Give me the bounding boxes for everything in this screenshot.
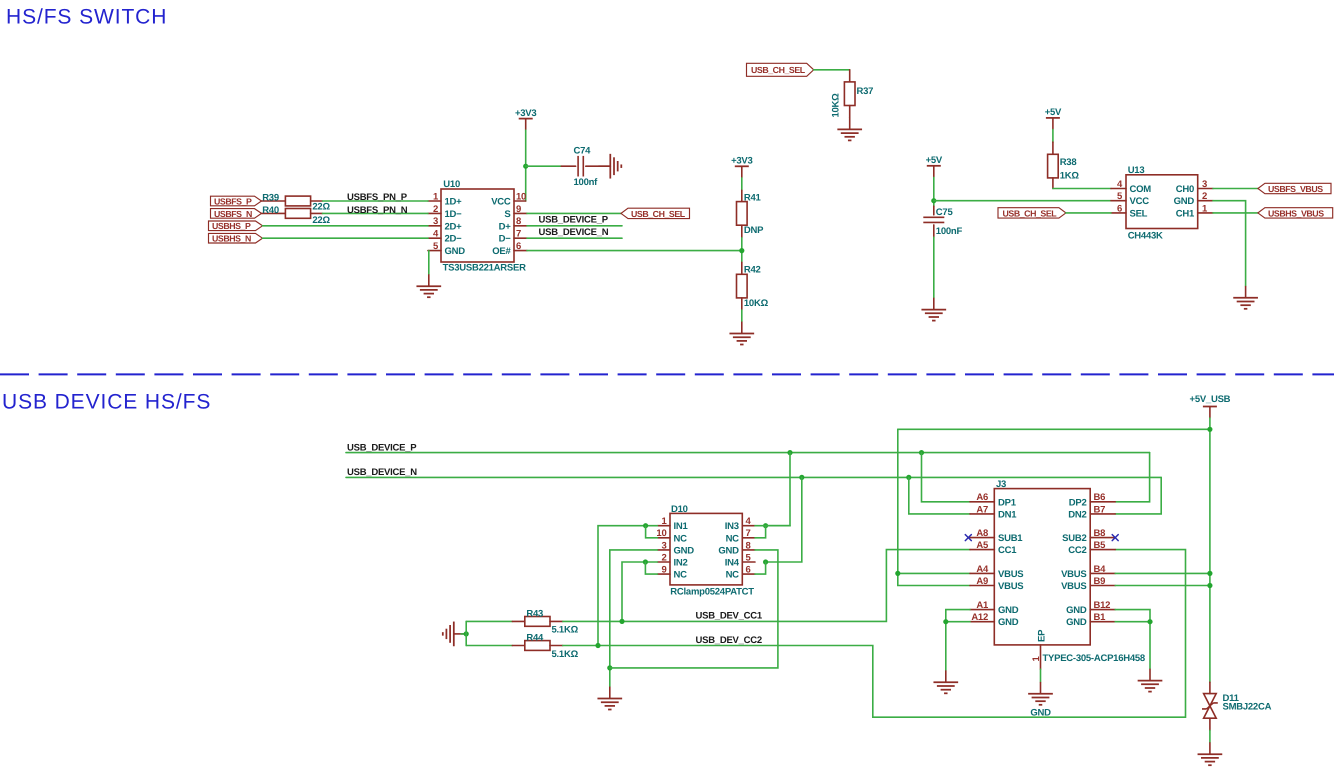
- power +5V (R38 top): [1045, 107, 1062, 130]
- svg-text:VBUS: VBUS: [998, 581, 1023, 592]
- wire pin2 GND to ground: [1213, 201, 1246, 286]
- svg-text:IN3: IN3: [725, 521, 739, 532]
- svg-text:R41: R41: [744, 192, 762, 203]
- svg-text:USB_CH_SEL: USB_CH_SEL: [631, 209, 686, 219]
- svg-text:USB_DEVICE_N: USB_DEVICE_N: [539, 227, 609, 238]
- J3 pin B7 DN2: [1068, 504, 1115, 520]
- global label USBFS_P: [211, 196, 262, 206]
- J3 pin EP: [1031, 629, 1048, 669]
- svg-text:R40: R40: [262, 205, 279, 216]
- wire USBHS_N to pin4: [263, 237, 429, 239]
- node +5V_USB column top: [1207, 427, 1212, 432]
- svg-text:CH443K: CH443K: [1128, 231, 1163, 242]
- ground below U10: [416, 274, 441, 297]
- U10 pin 8 D+: [499, 216, 527, 232]
- D10 pin 4 IN3: [725, 516, 755, 532]
- wire +5V to junction: [933, 177, 935, 206]
- svg-text:U10: U10: [443, 179, 460, 190]
- wire R40 to pin2 USBFS_PN_N: [323, 212, 429, 214]
- global label USBFS_VBUS: [1258, 183, 1331, 194]
- J3 pin A9 VBUS: [970, 576, 1023, 592]
- resistor R39 22R: [262, 192, 331, 212]
- wire IN1 to CC2 drop: [598, 526, 657, 646]
- svg-text:A4: A4: [976, 564, 989, 575]
- J3 pin B8 SUB2: [1062, 528, 1115, 544]
- svg-text:S: S: [504, 209, 510, 220]
- svg-text:USBFS_PN_P: USBFS_PN_P: [347, 192, 408, 203]
- svg-text:B5: B5: [1094, 540, 1107, 551]
- svg-text:SMBJ22CA: SMBJ22CA: [1223, 702, 1272, 713]
- wire junction to C74: [526, 165, 562, 167]
- wire +5V_USB horizontal to VBUS drop: [898, 428, 1210, 430]
- ground left of R43/R44: [443, 622, 466, 647]
- wire USB_DEV_CC1: [563, 550, 970, 622]
- wire down to J3 DP2: [1115, 453, 1149, 502]
- svg-text:+5V_USB: +5V_USB: [1190, 394, 1231, 405]
- svg-text:A8: A8: [976, 528, 988, 539]
- svg-text:DP1: DP1: [998, 497, 1017, 508]
- svg-text:DN1: DN1: [998, 509, 1017, 520]
- power +5V (C75 rail): [926, 155, 943, 178]
- wire riser to R43: [466, 620, 512, 622]
- node IN3 drop junction: [787, 450, 792, 455]
- wire pin9 S to USB_CH_SEL label: [527, 212, 621, 214]
- svg-text:B9: B9: [1094, 576, 1106, 587]
- svg-text:DP2: DP2: [1069, 497, 1087, 508]
- svg-text:GND: GND: [1174, 196, 1195, 207]
- svg-text:22Ω: 22Ω: [312, 215, 330, 226]
- U13 pin 4 COM: [1111, 179, 1151, 195]
- ground below A12: [933, 670, 958, 693]
- diode D11 SMBJ22CA TVS: [1202, 682, 1272, 730]
- wire EP to ground: [1040, 669, 1042, 682]
- wire USB_CH_SEL to R37: [814, 69, 850, 71]
- svg-text:VBUS: VBUS: [1061, 569, 1086, 580]
- wire riser R43/R44: [465, 621, 467, 645]
- svg-text:TYPEC-305-ACP16H458: TYPEC-305-ACP16H458: [1043, 653, 1145, 664]
- U10 pin 3 2D+: [428, 216, 462, 232]
- ground below EP: [1028, 682, 1053, 705]
- wire R38 to U13 COM: [1053, 188, 1111, 190]
- wire IN3 to P drop: [755, 525, 790, 527]
- node IN4/NC6 junction: [763, 559, 768, 564]
- wire NC6 hook: [755, 562, 766, 574]
- svg-text:USB_CH_SEL: USB_CH_SEL: [1003, 208, 1058, 218]
- global label USB_CH_SEL (at U10 pin9): [621, 208, 690, 219]
- wire GND3 to ground rail: [610, 550, 658, 687]
- node B4 on rail: [1207, 571, 1212, 576]
- wire pin7 D- USB_DEVICE_N: [527, 237, 622, 239]
- global label USBHS_VBUS: [1258, 208, 1333, 219]
- wire VBUS drop to A4/A9: [898, 429, 970, 585]
- node IN3/NC7 junction: [763, 523, 768, 528]
- svg-text:CC1: CC1: [998, 545, 1017, 556]
- J3 pin A4 VBUS: [970, 564, 1023, 580]
- svg-text:2: 2: [433, 204, 438, 215]
- wire A1/A12 to ground: [946, 610, 970, 671]
- section separator dashed line: [0, 373, 1334, 375]
- svg-text:R43: R43: [526, 609, 543, 620]
- wire USB_DEVICE_N bus: [346, 476, 1161, 478]
- svg-text:3: 3: [1202, 179, 1207, 190]
- J3 pin A5 CC1: [970, 540, 1017, 556]
- svg-text:NC: NC: [726, 533, 740, 544]
- wire pin3 CH0 to USBFS_VBUS: [1213, 188, 1258, 190]
- U10 pin 2 1D-: [428, 204, 462, 220]
- U13 pin 3 CH0: [1176, 179, 1213, 195]
- svg-text:USBFS_VBUS: USBFS_VBUS: [1268, 184, 1323, 194]
- U10 pin 9 S: [504, 204, 527, 220]
- wire drop to J3 DN1: [909, 477, 970, 514]
- node R43/R44 ground junction: [464, 631, 469, 636]
- J3 pin B4 VBUS: [1061, 564, 1115, 580]
- node IN4 drop junction: [799, 475, 804, 480]
- svg-text:USB_CH_SEL: USB_CH_SEL: [751, 65, 806, 75]
- svg-text:USBFS_P: USBFS_P: [214, 196, 252, 206]
- svg-text:USBHS_VBUS: USBHS_VBUS: [1268, 208, 1324, 218]
- wire U10 GND pin to ground: [428, 251, 430, 275]
- svg-text:R38: R38: [1060, 157, 1077, 168]
- svg-text:NC: NC: [726, 570, 740, 581]
- U10 pin 7 D-: [499, 229, 527, 245]
- wire +3V3 to VCC junction: [525, 130, 527, 201]
- svg-text:EP: EP: [1036, 629, 1047, 642]
- IC D10 RClamp0524PATCT: [670, 504, 754, 598]
- capacitor C75: [923, 206, 962, 237]
- node IN2 drop on CC1: [619, 619, 624, 624]
- svg-text:USBHS_P: USBHS_P: [212, 221, 251, 231]
- svg-text:R39: R39: [262, 192, 279, 203]
- svg-text:IN2: IN2: [674, 558, 688, 569]
- J3 pin B6 DP2: [1069, 492, 1115, 508]
- svg-text:SEL: SEL: [1130, 208, 1148, 219]
- svg-text:1D−: 1D−: [445, 209, 463, 220]
- svg-text:GND: GND: [1066, 605, 1087, 616]
- svg-text:COM: COM: [1130, 184, 1152, 195]
- svg-text:USB_DEV_CC2: USB_DEV_CC2: [696, 635, 762, 646]
- wire pin8 D+ USB_DEVICE_P: [527, 225, 622, 227]
- svg-text:C75: C75: [936, 207, 954, 218]
- wire A4 VBUS branch: [898, 572, 970, 574]
- D10 pin 2 IN2: [657, 552, 687, 568]
- D10 pin 7 NC: [726, 528, 755, 544]
- U13 pin 1 CH1: [1176, 203, 1213, 219]
- svg-text:SUB1: SUB1: [998, 533, 1023, 544]
- svg-text:7: 7: [516, 229, 521, 240]
- wire R39 to pin1 USBFS_PN_P: [323, 200, 429, 202]
- svg-text:J3: J3: [996, 479, 1006, 490]
- node IN1 drop on CC2: [595, 643, 600, 648]
- wire NC9 hook: [645, 562, 657, 574]
- svg-text:CC2: CC2: [1068, 545, 1086, 556]
- svg-text:VCC: VCC: [491, 197, 511, 208]
- svg-text:A1: A1: [976, 600, 989, 611]
- svg-text:5.1KΩ: 5.1KΩ: [552, 625, 579, 636]
- svg-text:+3V3: +3V3: [731, 155, 752, 166]
- global label USBFS_N: [211, 209, 262, 219]
- ground below R37: [837, 117, 862, 140]
- wire ground to R43/R44 riser: [461, 633, 466, 635]
- svg-text:R42: R42: [744, 265, 761, 276]
- wire SEL label to pin6: [1066, 212, 1111, 214]
- J3 pin B12 GND: [1066, 600, 1115, 616]
- U10 pin 10 VCC: [491, 191, 526, 207]
- wire B9 VBUS to +5V_USB rail: [1115, 585, 1210, 587]
- wire B12/B1 to ground: [1115, 610, 1150, 669]
- wire down to J3 DN2: [1115, 477, 1161, 514]
- svg-text:B6: B6: [1094, 492, 1106, 503]
- capacitor C74: [561, 145, 610, 188]
- power +5V_USB: [1190, 394, 1231, 418]
- ground below R42: [729, 322, 754, 345]
- svg-text:SUB2: SUB2: [1062, 533, 1086, 544]
- svg-text:B12: B12: [1094, 600, 1111, 611]
- wire NC7 hook: [755, 526, 766, 538]
- ground below U13 GND: [1233, 286, 1258, 309]
- D10 pin 5 IN4: [725, 552, 755, 568]
- svg-text:B8: B8: [1094, 528, 1106, 539]
- power +3V3 (U10 VCC rail): [515, 108, 536, 130]
- ground below C75: [921, 298, 946, 321]
- svg-text:6: 6: [516, 241, 521, 252]
- node A4 VBUS junction: [895, 571, 900, 576]
- svg-text:22Ω: 22Ω: [312, 202, 330, 213]
- svg-text:2: 2: [661, 552, 666, 563]
- wire +5V to R38: [1052, 130, 1054, 143]
- svg-text:+5V: +5V: [926, 155, 943, 166]
- U10 pin 4 2D-: [428, 229, 462, 245]
- J3 pin A1 GND: [970, 600, 1019, 616]
- svg-text:USB_DEVICE_P: USB_DEVICE_P: [347, 442, 417, 453]
- node DP1 drop junction: [919, 450, 924, 455]
- node VCC junction: [523, 164, 528, 169]
- svg-text:+5V: +5V: [1045, 107, 1062, 118]
- svg-text:7: 7: [746, 528, 751, 539]
- svg-text:D10: D10: [671, 504, 688, 515]
- svg-text:9: 9: [661, 565, 666, 576]
- svg-text:2D+: 2D+: [445, 221, 463, 232]
- svg-text:HS/FS SWITCH: HS/FS SWITCH: [6, 6, 167, 29]
- svg-text:USB DEVICE HS/FS: USB DEVICE HS/FS: [2, 391, 211, 414]
- svg-text:USBFS_PN_N: USBFS_PN_N: [347, 205, 408, 216]
- resistor R41 DNP: [737, 190, 765, 238]
- U10 pin 1 1D+: [428, 191, 462, 207]
- svg-text:USB_DEV_CC1: USB_DEV_CC1: [696, 611, 763, 622]
- svg-text:R44: R44: [526, 633, 544, 644]
- svg-text:USB_DEVICE_N: USB_DEVICE_N: [347, 467, 417, 478]
- svg-text:B4: B4: [1094, 564, 1107, 575]
- D10 pin 8 GND: [718, 540, 755, 556]
- wire drop to D10 IN4: [766, 477, 802, 562]
- wire USBHS_P to pin3: [263, 225, 429, 227]
- wire drop to J3 DP1: [922, 453, 971, 502]
- node OE#/R41/R42 junction: [739, 248, 744, 253]
- J3 pin B9 VBUS: [1061, 576, 1115, 592]
- svg-text:B7: B7: [1094, 504, 1106, 515]
- svg-text:DN2: DN2: [1068, 509, 1086, 520]
- J3 pin B1 GND: [1066, 612, 1115, 628]
- svg-text:VBUS: VBUS: [1061, 581, 1086, 592]
- wire riser to R44: [466, 645, 512, 647]
- svg-text:D+: D+: [499, 221, 512, 232]
- U10 pin 5 GND: [428, 241, 465, 257]
- svg-text:2D−: 2D−: [445, 234, 463, 245]
- svg-text:10: 10: [516, 191, 526, 202]
- svg-text:6: 6: [746, 565, 751, 576]
- wire B1 branch: [1115, 621, 1150, 623]
- svg-text:GND: GND: [998, 605, 1019, 616]
- svg-text:IN4: IN4: [725, 558, 740, 569]
- resistor R44 5.1K: [512, 633, 578, 660]
- wire junction to U13 VCC: [934, 200, 1111, 202]
- global label USBHS_N: [209, 233, 263, 243]
- svg-text:GND: GND: [1066, 617, 1087, 628]
- power +3V3 (R41 top): [731, 155, 752, 178]
- wire pin1 CH1 to USBHS_VBUS: [1213, 212, 1258, 214]
- svg-text:5.1KΩ: 5.1KΩ: [552, 649, 579, 660]
- U13 pin 6 SEL: [1111, 203, 1148, 219]
- wire USB_DEV_CC2: [563, 550, 1186, 718]
- J3 pin A8 SUB1: [970, 528, 1023, 544]
- wire IN2 to CC1 drop: [622, 562, 657, 621]
- node A12 junction: [943, 619, 948, 624]
- wire drop to D10 IN3: [766, 453, 790, 526]
- wire A12 branch: [946, 621, 970, 623]
- svg-text:8: 8: [516, 216, 521, 227]
- wire GND8 to ground rail: [610, 550, 778, 668]
- resistor R42 10K: [737, 262, 769, 310]
- ground below D11: [1198, 742, 1223, 765]
- svg-text:GND: GND: [998, 617, 1019, 628]
- svg-text:DNP: DNP: [744, 225, 764, 236]
- svg-text:A9: A9: [976, 576, 988, 587]
- svg-text:10KΩ: 10KΩ: [831, 93, 842, 118]
- connector J3 TYPEC-305-ACP16H458: [994, 479, 1145, 664]
- U13 pin 5 VCC: [1111, 191, 1149, 207]
- resistor R43 5.1K: [512, 609, 578, 636]
- wire C75 to ground: [933, 237, 935, 298]
- svg-text:D−: D−: [499, 234, 512, 245]
- D10 pin 10 NC: [656, 528, 687, 544]
- IC U10 TS3USB221ARSER: [441, 179, 526, 274]
- node IN2/NC9 junction: [643, 559, 648, 564]
- svg-text:1KΩ: 1KΩ: [1060, 171, 1080, 182]
- svg-text:A6: A6: [976, 492, 988, 503]
- svg-text:IN1: IN1: [674, 521, 689, 532]
- U10 pin 6 OE#: [492, 241, 527, 257]
- svg-text:C74: C74: [574, 145, 592, 156]
- svg-text:R37: R37: [857, 86, 874, 97]
- svg-text:GND: GND: [1030, 708, 1051, 719]
- wire +3V3 to R41: [741, 178, 743, 190]
- ground below B1: [1138, 669, 1163, 692]
- wire D11 to ground: [1209, 730, 1211, 742]
- wire NC10 hook: [646, 526, 658, 538]
- node B1 junction: [1147, 619, 1152, 624]
- svg-text:GND: GND: [718, 545, 739, 556]
- node C75/VCC junction: [931, 198, 936, 203]
- svg-text:NC: NC: [674, 533, 688, 544]
- J3 pin B5 CC2: [1068, 540, 1115, 556]
- global label USB_CH_SEL (to U13 SEL): [998, 208, 1066, 219]
- svg-text:RClamp0524PATCT: RClamp0524PATCT: [670, 586, 754, 597]
- svg-text:CH0: CH0: [1176, 184, 1194, 195]
- D10 pin 6 NC: [726, 565, 755, 581]
- svg-text:USBFS_N: USBFS_N: [214, 209, 252, 219]
- IC U13 CH443K: [1126, 165, 1198, 241]
- svg-text:TS3USB221ARSER: TS3USB221ARSER: [443, 263, 526, 274]
- svg-text:GND: GND: [674, 545, 695, 556]
- svg-text:100nF: 100nF: [936, 226, 963, 237]
- J3 pin A7 DN1: [970, 504, 1017, 520]
- svg-text:OE#: OE#: [492, 246, 511, 257]
- svg-text:VBUS: VBUS: [998, 569, 1023, 580]
- U13 pin 2 GND: [1174, 191, 1213, 207]
- global label USB_CH_SEL (top, to R37): [747, 63, 814, 76]
- no-connect flag B8: [1112, 535, 1118, 541]
- node B9 on rail: [1207, 583, 1212, 588]
- svg-text:GND: GND: [445, 246, 466, 257]
- svg-text:1D+: 1D+: [445, 197, 463, 208]
- node D10 ground junction: [607, 665, 612, 670]
- ground right of C74: [598, 154, 621, 179]
- D10 pin 1 IN1: [657, 516, 688, 532]
- svg-text:NC: NC: [674, 570, 688, 581]
- svg-text:A7: A7: [976, 504, 988, 515]
- svg-text:VCC: VCC: [1130, 196, 1150, 207]
- resistor R40 22R: [262, 205, 331, 226]
- wire B4 VBUS to +5V_USB rail: [1115, 572, 1210, 574]
- wire pin6 OE# to R41/R42 junction: [527, 250, 742, 252]
- wire USB_DEVICE_P bus: [346, 452, 1150, 454]
- wire +5V_USB rail down to D11: [1209, 418, 1211, 682]
- svg-text:8: 8: [746, 540, 751, 551]
- D10 pin 3 GND: [657, 540, 694, 556]
- node DN1 drop junction: [906, 475, 911, 480]
- resistor R37: [831, 70, 874, 118]
- svg-text:3: 3: [661, 540, 666, 551]
- svg-text:B1: B1: [1094, 612, 1107, 623]
- D10 pin 9 NC: [657, 565, 687, 581]
- svg-text:6: 6: [1117, 203, 1122, 214]
- svg-text:10KΩ: 10KΩ: [744, 298, 769, 309]
- svg-text:+3V3: +3V3: [515, 108, 536, 119]
- J3 pin A6 DP1: [970, 492, 1017, 508]
- no-connect flag A8: [965, 535, 971, 541]
- svg-text:9: 9: [516, 204, 521, 215]
- ground below D10: [597, 687, 622, 710]
- svg-text:A5: A5: [976, 540, 989, 551]
- global label USBHS_P: [209, 221, 263, 231]
- svg-text:USBHS_N: USBHS_N: [212, 234, 251, 244]
- svg-text:CH1: CH1: [1176, 208, 1195, 219]
- svg-text:100nf: 100nf: [574, 177, 599, 188]
- node IN1/NC10 junction: [643, 523, 648, 528]
- wire R41 to junction: [741, 238, 743, 262]
- svg-text:USB_DEVICE_P: USB_DEVICE_P: [539, 214, 609, 225]
- wire R42 to ground: [741, 310, 743, 322]
- svg-text:A12: A12: [971, 612, 988, 623]
- svg-text:3: 3: [433, 216, 438, 227]
- resistor R38 1K: [1048, 142, 1080, 188]
- svg-text:U13: U13: [1128, 165, 1145, 176]
- J3 pin A12 GND: [970, 612, 1019, 628]
- svg-text:2: 2: [1202, 191, 1207, 202]
